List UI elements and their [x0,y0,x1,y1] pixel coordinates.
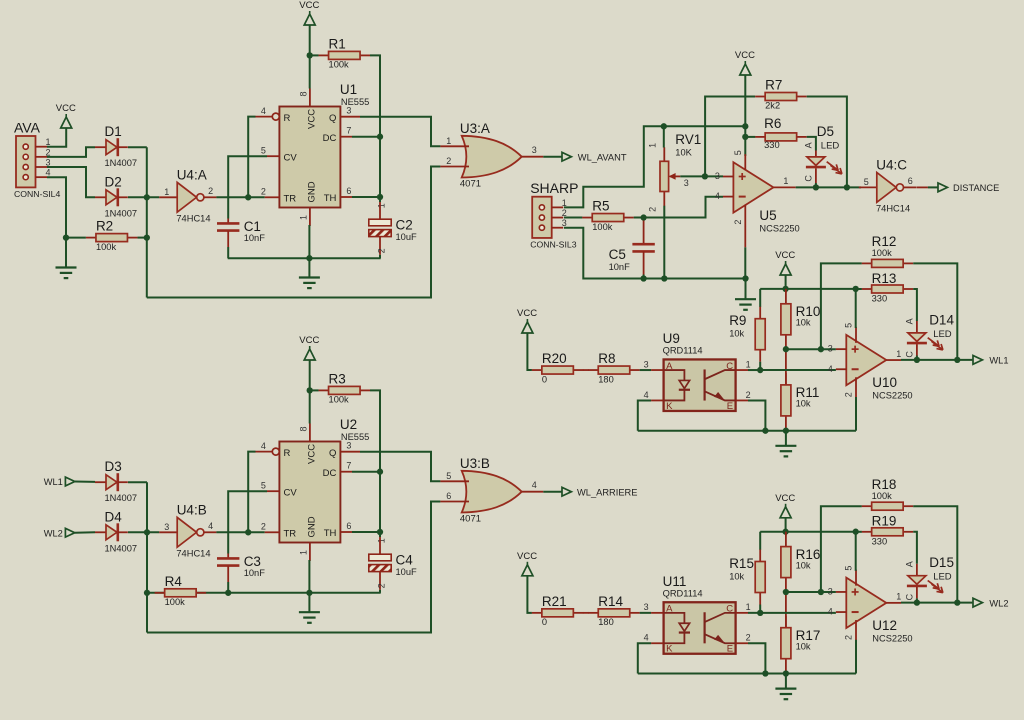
svg-text:6: 6 [908,176,913,186]
C5 bottom lead [643,251,645,274]
svg-text:CV: CV [284,153,298,164]
svg-text:LED: LED [933,329,952,340]
wire U3:B out [543,491,561,493]
U5 pin 2 lead extension [744,227,746,248]
svg-text:1: 1 [46,137,51,147]
svg-text:3: 3 [644,602,649,612]
svg-text:2: 2 [746,633,751,643]
D14 cathode lead [916,344,918,355]
wire VCC rail h U10 [760,288,856,290]
svg-text:R13: R13 [872,271,897,286]
power VCC R20 section [517,308,537,333]
resistor R1 100k [319,36,371,69]
terminal WL2 input [44,528,75,538]
wire VCC to R21 [527,576,532,613]
svg-text:8: 8 [299,426,309,431]
wire pin5 wire U12 [855,532,857,571]
optical sensor U9 QRD1114 [644,331,751,412]
junction VCC node a U12 [782,529,788,535]
wire C2 to rail [379,255,381,258]
wire AVA pin4 down [47,177,66,267]
junction R2 right node [144,234,150,240]
svg-text:K: K [666,401,673,412]
svg-text:U9: U9 [663,331,680,346]
wire C1 bottom [227,247,229,258]
wire WL1 to D3 [75,481,95,483]
svg-text:WL2: WL2 [989,598,1008,608]
svg-text:CONN-SIL4: CONN-SIL4 [14,189,61,199]
wire gnd stem [745,279,747,299]
junction VCC node b U10 [853,286,859,292]
svg-text:R12: R12 [872,234,897,249]
resistor R13 330 [862,271,914,304]
svg-text:R3: R3 [329,371,346,386]
wire feedback to U3:B pin6 [147,502,440,633]
power VCC for R1 [299,0,319,25]
junction D14 out node [914,357,920,363]
resistor R3 100k [319,371,371,404]
svg-text:LED: LED [933,572,952,583]
svg-text:TH: TH [324,528,337,539]
svg-text:U1: U1 [340,82,357,97]
terminal WL1 output [973,355,1009,365]
svg-text:6: 6 [346,521,351,531]
wire TR node to R pin 2 [248,452,255,533]
resistor R5 100k [582,199,634,232]
wire U9 K wire [638,400,651,430]
ground comparator U12 [775,689,796,700]
junction gnd rail node U12 [783,670,789,676]
svg-text:3: 3 [828,344,833,354]
wire Q to U3:A pin1 [360,117,440,147]
svg-text:A: A [666,604,673,615]
wire U1 gnd pin down [308,225,310,277]
svg-text:5: 5 [446,471,451,481]
timer U2 NE555 [256,417,370,561]
junction R2 left node [63,234,69,240]
svg-text:100k: 100k [96,242,117,252]
svg-text:NE555: NE555 [341,97,369,107]
terminal WL2 output [973,598,1009,608]
wire pin2 wire U12 [855,640,857,674]
wire R1 left stub [310,54,319,56]
svg-text:1: 1 [299,215,309,220]
junction R9 bottom node [757,367,763,373]
svg-text:U12: U12 [872,618,897,633]
svg-text:E: E [727,401,733,412]
resistor R11 10k [781,373,819,428]
inverter U4:B 74HC14 [159,503,216,559]
wire U4:B out to TR [216,531,264,533]
resistor R9 10k [729,307,765,362]
svg-text:A: A [804,142,814,148]
resistor R2 100k [86,219,138,252]
svg-text:1N4007: 1N4007 [105,543,138,553]
junction D5 out node [813,184,819,190]
junction DC node 2 [377,469,383,475]
C2 top lead [379,202,381,219]
R17 top lead wire [785,592,787,628]
svg-text:10K: 10K [675,147,692,157]
C4 top lead [379,537,381,554]
wire RV1 bottom [663,206,665,279]
wire SHARP pin3 down [564,228,746,279]
svg-text:VCC: VCC [517,308,537,319]
power VCC U5 VCC [735,50,755,75]
svg-text:R14: R14 [598,594,623,609]
wire R12 left wire [821,263,862,349]
wire input node vertical 2 [146,482,148,632]
wire U4:C out [928,186,938,188]
svg-text:R7: R7 [765,78,782,93]
svg-text:3: 3 [828,586,833,596]
svg-text:R8: R8 [598,351,615,366]
junction R1 left node [307,52,313,58]
svg-text:D5: D5 [817,124,834,139]
junction gnd rail node [306,255,312,261]
wire minus row U12 [760,612,836,614]
svg-text:10k: 10k [796,399,811,409]
wire R7 left [705,97,755,177]
svg-text:1N4007: 1N4007 [105,493,138,503]
svg-text:VCC: VCC [735,50,755,61]
svg-text:1: 1 [377,203,387,208]
wire D15 cathode wire [916,598,918,602]
svg-text:2: 2 [46,147,51,157]
wire D4 cathode to node [128,531,159,533]
junction D4-U4B node [144,529,150,535]
svg-text:GND: GND [306,181,317,202]
svg-text:C1: C1 [244,219,261,234]
svg-text:NCS2250: NCS2250 [872,391,912,401]
wire out row U10 [901,359,972,361]
svg-text:R20: R20 [542,351,567,366]
wire U11 K wire [638,643,651,673]
svg-text:4: 4 [46,168,51,178]
R10 top lead wire [785,289,787,293]
svg-text:U3:B: U3:B [460,456,490,471]
resistor R10 10k [781,292,820,347]
wire VCC down to R1 node [309,25,311,89]
svg-text:VCC: VCC [775,493,795,504]
wire gnd stem U12 [785,674,787,689]
svg-text:0: 0 [542,617,547,627]
ground comparator U10 [775,446,796,457]
svg-text:VCC: VCC [517,551,537,562]
svg-text:74HC14: 74HC14 [876,203,910,213]
wire C4 to rail [379,590,381,593]
capacitor C3 10nF [217,554,265,578]
svg-text:2: 2 [208,186,213,196]
wire U9 E wire [748,400,765,430]
svg-text:K: K [666,644,673,655]
svg-text:D2: D2 [105,174,122,189]
junction U5 gnd node [742,275,748,281]
svg-text:C: C [804,175,814,182]
svg-text:R: R [284,113,291,124]
svg-text:RV1: RV1 [675,132,701,147]
wire gnd rail U10 [638,430,856,432]
terminal WL_ARRIERE output [562,487,637,497]
svg-text:VCC: VCC [306,109,317,129]
svg-text:R9: R9 [729,313,746,328]
wire ground rail U2 [147,592,381,594]
D15 cathode lead [916,587,918,598]
pin label 2 of C4 [377,583,387,588]
junction TR node 2 [245,529,251,535]
svg-text:TH: TH [324,193,337,204]
svg-text:100k: 100k [329,395,350,405]
junction D2-U4A node [144,194,150,200]
wire TH lead to vertical [352,196,380,198]
OR gate U3:B 4071 [440,456,543,524]
U4:C output lead extension [916,186,928,188]
wire R3 left stub [310,389,319,391]
junction RV1 top node [661,123,667,129]
svg-text:1: 1 [648,143,658,148]
svg-text:R: R [284,448,291,459]
svg-text:4: 4 [261,441,266,451]
diode D4 1N4007 [95,509,137,553]
svg-text:VCC: VCC [299,0,319,11]
junction TH node 2 [377,529,383,535]
junction R18 out node [954,600,960,606]
wire R12 right wire [913,263,957,359]
potentiometer RV1 10K [648,132,702,212]
svg-text:1: 1 [896,349,901,359]
svg-text:WL_ARRIERE: WL_ARRIERE [577,487,637,497]
op-amp U5 NCS2250 [715,150,800,233]
svg-text:GND: GND [306,516,317,537]
wire plus row U10 [786,348,836,350]
wire gnd stem U10 [785,431,787,446]
svg-text:330: 330 [764,140,780,150]
svg-text:10uF: 10uF [396,567,418,577]
svg-text:WL1: WL1 [989,355,1008,365]
wire CV to C1 [228,156,267,218]
svg-text:CONN-SIL3: CONN-SIL3 [530,239,577,249]
wire Q to U3:B pin5 [360,452,440,482]
svg-text:2: 2 [733,220,743,225]
svg-text:D1: D1 [105,124,122,139]
wire U3:A out [543,156,561,158]
svg-text:3: 3 [346,106,351,116]
svg-text:4: 4 [828,607,833,617]
junction R15 bottom node [757,610,763,616]
junction gnd rail node 2 [306,590,312,596]
svg-text:7: 7 [346,126,351,136]
svg-text:NE555: NE555 [341,432,369,442]
svg-text:QRD1114: QRD1114 [663,588,703,598]
svg-text:VCC: VCC [306,444,317,464]
junction TR node [245,194,251,200]
svg-text:4: 4 [261,106,266,116]
svg-text:1: 1 [746,359,751,369]
resistor R4 100k [155,574,207,607]
svg-text:C: C [726,604,733,615]
svg-text:C: C [905,593,915,600]
svg-text:10k: 10k [796,560,811,570]
svg-text:D15: D15 [929,555,954,570]
resistor R7 2k2 [755,78,807,111]
svg-text:WL1: WL1 [44,477,63,487]
wire U4:A out to TR [216,196,264,198]
svg-text:100k: 100k [329,60,350,70]
resistor R12 100k [862,234,914,267]
svg-text:4071: 4071 [460,513,481,524]
terminal WL1 input [44,477,75,487]
wire minus row U10 [760,369,836,371]
wire WL2 to D4 [75,531,95,533]
svg-text:4: 4 [828,364,833,374]
junction E rail node U12 [762,670,768,676]
svg-text:10k: 10k [729,571,744,581]
resistor R14 180 [588,594,640,627]
svg-text:A: A [905,561,915,567]
svg-text:10nF: 10nF [244,568,266,578]
svg-text:2: 2 [377,248,387,253]
svg-text:1N4007: 1N4007 [105,208,138,218]
resistor R8 180 [588,351,640,384]
svg-text:7: 7 [346,461,351,471]
svg-text:330: 330 [872,294,888,304]
ground comparator 1 [735,299,756,310]
junction R7 out node [844,184,850,190]
svg-text:U5: U5 [759,208,776,223]
svg-text:180: 180 [598,617,614,627]
junction D15 out node [914,600,920,606]
ground below U2 [299,612,320,623]
wire D5 to out [815,183,817,187]
diode D3 1N4007 [95,459,137,503]
svg-text:5: 5 [733,150,743,155]
wire R18 right wire [913,506,957,602]
svg-text:2: 2 [648,207,658,212]
wire R19 right wire [913,532,917,564]
wire VCC rail U10 [785,275,787,289]
wire U5 out [796,186,861,188]
power VCC U10 section [775,250,795,275]
junction VCC node b U12 [853,529,859,535]
svg-text:2: 2 [261,522,266,532]
svg-text:A: A [905,318,915,324]
svg-text:U4:C: U4:C [876,158,907,173]
wire D14 cathode wire [916,356,918,360]
svg-text:5: 5 [844,566,854,571]
svg-text:1: 1 [446,136,451,146]
svg-text:1: 1 [783,176,788,186]
svg-text:C4: C4 [396,553,414,568]
svg-text:VCC: VCC [775,250,795,261]
svg-text:Q: Q [329,448,336,459]
resistor R21 0 [532,594,584,627]
wire DC lead to vertical 2 [352,471,380,473]
svg-text:100k: 100k [592,222,613,232]
svg-text:E: E [727,644,733,655]
C1 bottom lead [227,231,229,247]
junction R6 node [742,134,748,140]
svg-text:U3:A: U3:A [460,121,490,136]
svg-text:74HC14: 74HC14 [176,548,210,558]
wire VCC rail h U12 [760,531,856,533]
junction R12 out node [954,357,960,363]
power VCC for R3 [299,335,319,360]
C3 top lead [227,554,229,559]
svg-text:3: 3 [532,145,537,155]
svg-text:DC: DC [323,468,337,479]
svg-text:R4: R4 [165,574,183,589]
wire TR node to R pin [248,117,255,198]
svg-text:330: 330 [872,536,888,546]
resistor R15 10k [729,550,765,605]
wire AVA pin2 to D1 [47,147,95,157]
wire U11 E wire [748,643,765,673]
svg-text:R1: R1 [329,36,346,51]
junction VCC-net node [742,123,748,129]
wire TH lead to vertical 2 [352,531,380,533]
svg-text:3: 3 [715,171,720,181]
junction R3 left node [307,387,313,393]
junction gnd rail node U10 [783,428,789,434]
D14 anode lead [916,321,918,333]
timer U1 NE555 [256,82,370,226]
svg-text:1: 1 [562,198,567,208]
svg-text:6: 6 [446,491,451,501]
junction R10-R11 node [783,346,789,352]
svg-text:0: 0 [542,374,547,384]
svg-text:5: 5 [261,146,266,156]
junction R5-C5 node [640,214,646,220]
svg-text:D4: D4 [105,509,123,524]
wire U9 C wire [748,369,760,371]
C3 bottom lead [227,566,229,582]
wire R7 right [807,97,847,188]
svg-text:C: C [726,361,733,372]
resistor R16 10k [781,535,820,590]
svg-text:180: 180 [598,374,614,384]
junction RV1 gnd node [661,275,667,281]
wire R13 right wire [913,289,917,321]
op-amp U10 NCS2250 [828,323,913,401]
svg-text:100k: 100k [872,248,893,258]
connector SHARP CONN-SIL3 [530,180,578,249]
resistor R20 0 [532,351,584,384]
pin label 1 of C2 [377,203,387,208]
wire R6 right to D5 [807,137,816,151]
junction C3 rail node [225,590,231,596]
svg-text:DISTANCE: DISTANCE [953,183,999,193]
wire R15 bottom wire [759,605,761,613]
svg-text:2: 2 [844,635,854,640]
junction R12 left node [818,346,824,352]
svg-text:10uF: 10uF [396,232,418,242]
wire R15 top wire [759,532,761,550]
wire R9 bottom wire [759,362,761,370]
svg-text:1N4007: 1N4007 [105,158,138,168]
capacitor C5 10nF [609,244,655,272]
svg-text:1: 1 [299,550,309,555]
wire DC lead to vertical [352,136,380,138]
svg-text:CV: CV [284,488,298,499]
R20-R8 link [583,369,589,371]
wire VCC vert U5 [744,75,746,156]
LED D5 [804,124,842,181]
svg-text:LED: LED [821,141,840,152]
svg-text:3: 3 [164,522,169,532]
svg-text:R21: R21 [542,594,567,609]
junction E rail node U10 [762,428,768,434]
svg-text:NCS2250: NCS2250 [872,634,912,644]
